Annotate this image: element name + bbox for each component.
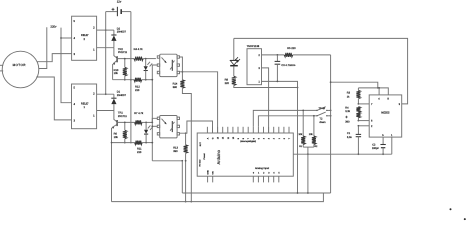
svg-text:220: 220 — [225, 82, 230, 85]
motor left terminal stubs — [0, 65, 3, 71]
svg-text:6: 6 — [371, 120, 373, 123]
wire LED-node vertical to lower rail — [152, 160, 183, 162]
svg-text:8: 8 — [387, 98, 389, 101]
svg-text:2: 2 — [263, 172, 265, 175]
ground rail B — [112, 193, 324, 202]
svg-text:R2: R2 — [315, 145, 319, 148]
svg-text:2: 2 — [371, 125, 373, 128]
svg-text:Power: Power — [203, 153, 206, 159]
svg-text:12v: 12v — [117, 0, 122, 4]
svg-text:2: 2 — [93, 93, 95, 96]
svg-text:down: down — [319, 121, 326, 124]
svg-text:4: 4 — [273, 172, 275, 175]
svg-text:3,3k: 3,3k — [345, 110, 350, 113]
resistor R10 10k — [114, 58, 127, 81]
svg-text:11: 11 — [227, 136, 230, 139]
wire opto U2 bottom-right pin to arduino digital pin — [180, 72, 218, 133]
LED D3 indicator — [144, 122, 153, 142]
resistor R4b 3,3k + trimmer 390 — [345, 107, 360, 124]
label R7 4.7k — [134, 112, 144, 115]
svg-text:390: 390 — [173, 150, 178, 153]
wire 555 supply rail — [358, 87, 388, 95]
svg-text:10k: 10k — [309, 133, 314, 136]
svg-text:T: T — [288, 137, 291, 139]
svg-text:Analog Input: Analog Input — [255, 167, 269, 170]
wire opto U2 top-right pin down — [180, 57, 184, 80]
timer NE555 — [369, 95, 402, 137]
transistor TR1 2N1711 — [112, 111, 128, 202]
wire +12 vertical rail — [105, 12, 107, 96]
svg-text:1: 1 — [84, 106, 86, 109]
svg-text:G: G — [212, 137, 215, 139]
diode D1 1N4007 — [111, 91, 126, 111]
svg-text:0: 0 — [283, 137, 286, 139]
svg-text:10k: 10k — [114, 72, 119, 75]
capacitor C3 4.7micro — [275, 55, 296, 82]
svg-text:1N4007: 1N4007 — [117, 94, 127, 97]
wire TSOP pin2 output line — [262, 54, 285, 56]
wire RELE2 pin2 to +12 rail — [97, 29, 107, 31]
resistor R6 10k — [114, 122, 127, 144]
svg-text:RST: RST — [199, 141, 202, 146]
svg-text:220v: 220v — [50, 25, 57, 29]
resistor R1 10k pulldown — [298, 110, 305, 149]
wire opto U2 middle-left pin to LED node vertical — [151, 65, 157, 161]
svg-text:C3 4.7micro: C3 4.7micro — [281, 64, 296, 67]
wire RELE2 pin1 to diode bottom — [97, 47, 114, 49]
svg-text:5: 5 — [74, 87, 76, 90]
svg-text:12: 12 — [222, 136, 225, 139]
wire motor to RELE2 pin 3 — [37, 54, 72, 62]
battery B1 12v — [106, 7, 131, 16]
resistor R12 220 — [134, 78, 152, 92]
resistor R3 1k — [347, 88, 361, 105]
svg-text:R4 4.7k: R4 4.7k — [134, 48, 144, 51]
relay RELE2 — [72, 16, 97, 60]
wire 220v line 2 to relays — [60, 28, 72, 103]
switch T3 up — [253, 107, 331, 127]
svg-text:7: 7 — [371, 103, 373, 106]
wire RELE2 pin2 to diode top — [106, 29, 114, 31]
svg-text:9: 9 — [237, 137, 240, 139]
wire 555 pin1 to ground rail — [391, 137, 393, 154]
svg-text:RELE': RELE' — [81, 34, 89, 37]
svg-text:1k: 1k — [347, 95, 350, 98]
ground rail C (arduino to 555) — [293, 153, 392, 155]
resistor R11 220 — [135, 141, 154, 154]
wire TSOP pin3 to arduino — [262, 68, 269, 133]
wire 555 pin3 output loop to IR emitter — [234, 38, 408, 104]
svg-text:5: 5 — [257, 137, 260, 139]
svg-text:PN1711: PN1711 — [118, 51, 128, 54]
capacitor C2 100pF — [372, 137, 386, 155]
svg-text:10k: 10k — [298, 133, 303, 136]
svg-text:3,3n: 3,3n — [347, 136, 352, 139]
svg-text:T3 up: T3 up — [318, 107, 325, 110]
svg-text:2: 2 — [93, 27, 95, 30]
svg-text:1: 1 — [258, 172, 260, 175]
optocoupler U3 (channel 1) — [157, 116, 179, 138]
svg-text:1: 1 — [258, 80, 260, 83]
wire motor to RELE1 pin 3 — [36, 77, 71, 120]
svg-text:5: 5 — [74, 20, 76, 23]
svg-text:8: 8 — [242, 137, 245, 139]
resistor R5 220 — [284, 47, 330, 57]
svg-text:6: 6 — [252, 137, 255, 139]
speck artifact 2 — [464, 218, 466, 220]
svg-text:2: 2 — [258, 54, 260, 57]
wire drop to ground rail A — [181, 161, 183, 193]
svg-text:NE555: NE555 — [381, 111, 390, 114]
svg-text:1: 1 — [278, 137, 281, 139]
svg-text:10k: 10k — [114, 136, 119, 139]
speck artifact 1 — [450, 208, 452, 210]
svg-text:4: 4 — [74, 37, 76, 40]
label R4 4.7k — [134, 48, 144, 51]
label 12v — [117, 0, 122, 4]
wire 555 pin2 — [358, 125, 370, 127]
svg-text:R5 220: R5 220 — [287, 47, 296, 50]
svg-text:4: 4 — [378, 98, 380, 101]
IR emitter diode chain — [230, 38, 240, 76]
svg-text:1: 1 — [391, 134, 393, 137]
svg-text:A: A — [206, 137, 209, 139]
wire TSOP output down the right column — [330, 55, 332, 193]
arduino board U4 — [197, 127, 293, 183]
wire RELE1 pin1 to diode bottom — [97, 110, 114, 112]
svg-text:2: 2 — [273, 137, 276, 139]
wire opto U3 middle-left pin stub — [151, 125, 157, 127]
label 220v — [50, 25, 57, 29]
svg-text:220: 220 — [135, 89, 140, 92]
wire 555 pin6 — [358, 120, 369, 122]
svg-text:TSOP1138: TSOP1138 — [247, 45, 260, 48]
wire TSOP pin1 ground — [262, 81, 299, 89]
svg-text:GND: GND — [207, 170, 210, 175]
svg-text:5V Gnd: 5V Gnd — [199, 160, 202, 167]
svg-text:3: 3 — [74, 53, 76, 56]
svg-text:R1: R1 — [299, 145, 303, 148]
svg-text:MOTOR: MOTOR — [13, 63, 27, 67]
wire opto U3 top-left pin jog — [152, 118, 157, 122]
resistor R13 390 — [173, 133, 187, 202]
svg-text:13: 13 — [217, 136, 220, 139]
svg-text:VIN: VIN — [212, 171, 215, 175]
motor M — [2, 51, 39, 88]
svg-text:(interrupt/digital): (interrupt/digital) — [240, 140, 256, 143]
svg-text:100pF: 100pF — [372, 147, 380, 150]
resistor R4 4.7k — [134, 57, 156, 61]
wire opto U3 bottom-right pin to arduino digital pin — [180, 121, 213, 134]
svg-text:1N4007: 1N4007 — [117, 31, 127, 34]
svg-text:4: 4 — [74, 103, 76, 106]
svg-text:2: 2 — [84, 38, 86, 41]
svg-text:4: 4 — [263, 137, 266, 139]
svg-text:3: 3 — [399, 103, 401, 106]
svg-text:2N1711: 2N1711 — [118, 115, 127, 118]
svg-text:0: 0 — [253, 172, 255, 175]
svg-text:3: 3 — [258, 67, 260, 70]
node 220v line (motor feed) — [39, 27, 47, 68]
svg-text:3: 3 — [268, 172, 270, 175]
wire ground drop V1 — [297, 88, 299, 194]
svg-text:R3: R3 — [347, 92, 351, 95]
svg-text:390: 390 — [173, 86, 178, 89]
svg-text:1: 1 — [93, 49, 95, 52]
LED D4 indicator — [144, 59, 153, 80]
wire TR1 base line — [117, 121, 135, 123]
svg-text:Arduino: Arduino — [216, 149, 221, 164]
ground rail A — [182, 192, 330, 194]
svg-text:RELE': RELE' — [81, 102, 89, 105]
capacitor C1 3,3n — [347, 126, 361, 155]
svg-text:R7 4.7k: R7 4.7k — [134, 112, 144, 115]
svg-text:5: 5 — [382, 134, 384, 137]
resistor R8 220 — [225, 76, 298, 87]
wire TR2 base line — [117, 58, 134, 60]
optocoupler U2 (channel 2) — [157, 54, 179, 76]
wire vcc to 555 — [331, 82, 379, 89]
wire emitter bottom line ch2 — [113, 79, 134, 81]
resistor R14 390 — [173, 80, 193, 203]
svg-text:1: 1 — [93, 115, 95, 118]
transistor TR2 PN1711 — [113, 48, 128, 80]
IR receiver TSOP1138 — [247, 45, 262, 84]
wire emitter bottom line ch1 — [111, 142, 135, 144]
svg-text:C1: C1 — [347, 132, 351, 135]
svg-text:3: 3 — [268, 137, 271, 139]
svg-text:C2: C2 — [372, 144, 376, 147]
svg-text:3: 3 — [74, 119, 76, 122]
diode D2 1N4007 — [111, 27, 126, 47]
switch T2 down — [258, 112, 331, 127]
svg-text:7: 7 — [247, 137, 250, 139]
relay RELE1 — [72, 84, 97, 129]
resistor R2 10k pulldown — [309, 115, 318, 148]
wire RELE1 pin2 to diode top — [97, 93, 114, 95]
svg-text:5: 5 — [278, 172, 280, 175]
wire pulldown common drop — [303, 147, 314, 194]
svg-text:10: 10 — [232, 136, 235, 139]
svg-text:390: 390 — [345, 120, 350, 123]
wire battery right vertical — [130, 12, 132, 144]
wire 555 pin7 — [358, 103, 369, 105]
svg-text:220: 220 — [137, 151, 142, 154]
resistor R7 4.7k — [135, 120, 154, 124]
